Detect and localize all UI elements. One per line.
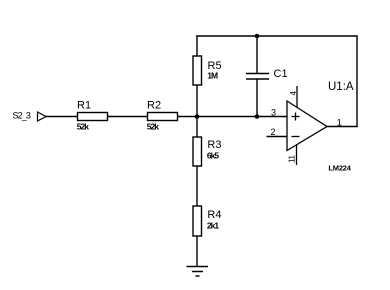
svg-text:R4: R4 [207, 209, 221, 221]
svg-text:52k: 52k [77, 122, 89, 132]
wire R4 to ground [196, 236, 198, 267]
wire top feedback rail [196, 35, 357, 37]
input port symbol [38, 112, 47, 121]
resistor R1 [78, 113, 108, 121]
pin 11 power stub [296, 145, 298, 166]
svg-text:LM224: LM224 [328, 163, 351, 172]
svg-text:11: 11 [288, 155, 297, 163]
ground [187, 266, 209, 268]
svg-text:U1:A: U1:A [328, 81, 354, 93]
svg-text:R1: R1 [77, 100, 91, 112]
wire node to R5 bottom [196, 85, 198, 117]
node junction at R5/R3 [195, 114, 200, 119]
wire op-amp output [327, 126, 358, 128]
svg-text:C1: C1 [274, 68, 288, 80]
svg-text:1: 1 [337, 118, 342, 128]
wire R1 to R2 [108, 116, 148, 118]
svg-text:52k: 52k [147, 122, 159, 132]
svg-text:R3: R3 [207, 139, 221, 151]
minus input mark [292, 136, 300, 138]
wire R3 to R4 [196, 166, 198, 206]
resistor R5 [193, 56, 202, 85]
wire feedback vertical [356, 36, 358, 127]
wire input to R1 [46, 116, 78, 118]
svg-text:2: 2 [271, 127, 276, 137]
resistor R3 [193, 137, 202, 166]
svg-text:1M: 1M [207, 70, 218, 80]
wire R5 top to rail [196, 35, 198, 56]
svg-text:2k1: 2k1 [207, 220, 219, 230]
op-amp U1:A [287, 101, 327, 151]
svg-text:3: 3 [271, 108, 276, 118]
plus input mark [292, 116, 300, 118]
pin 4 power stub [296, 86, 298, 108]
wire R2 to op-amp pin 3 [178, 116, 288, 118]
svg-text:6k5: 6k5 [207, 151, 219, 161]
resistor R2 [148, 113, 178, 121]
svg-text:R2: R2 [147, 100, 161, 112]
svg-text:S2_3: S2_3 [13, 111, 31, 121]
wire pin 2 stub [267, 136, 288, 138]
capacitor C1 [256, 36, 258, 74]
junction C1 top [255, 34, 260, 39]
node junction at C1 bottom [255, 114, 260, 119]
svg-text:4: 4 [289, 91, 298, 96]
resistor R4 [193, 206, 202, 236]
wire node to R3 [196, 117, 198, 138]
